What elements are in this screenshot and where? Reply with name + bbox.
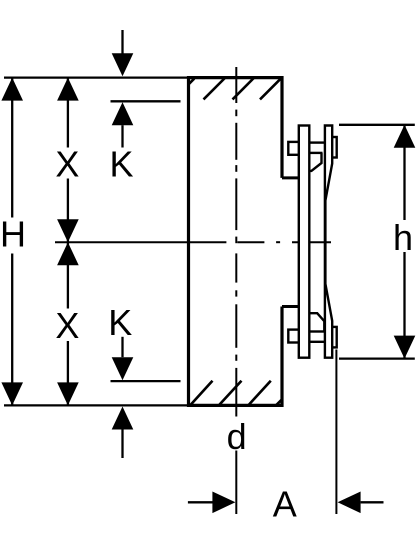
bolt head top	[288, 142, 300, 155]
arrow X mid up	[57, 242, 79, 265]
flange plate inner	[299, 126, 310, 358]
vertical centerline	[235, 67, 237, 417]
dimension H line	[11, 78, 13, 406]
dimension X line	[67, 78, 69, 406]
extension line top	[4, 76, 188, 78]
svg-text:K: K	[109, 144, 133, 185]
arrow h bottom	[394, 336, 416, 359]
h extension line top	[339, 124, 415, 126]
nut tab bottom	[332, 327, 337, 348]
clamp chamfer bottom	[309, 313, 324, 331]
arrow H bottom	[1, 382, 23, 405]
pipe collar ledge bottom	[282, 305, 299, 308]
svg-text:X: X	[55, 305, 79, 346]
K lower arrow above	[121, 337, 123, 357]
dimension h line	[403, 125, 405, 359]
clamp chamfer top	[309, 153, 321, 171]
K upper extension line	[111, 100, 181, 102]
arrow X bottom	[57, 382, 79, 405]
bolt shaft top	[309, 143, 325, 153]
nut tab top	[332, 137, 337, 158]
K lower extension line	[111, 380, 181, 382]
A arrow right	[338, 492, 361, 514]
svg-text:X: X	[55, 144, 79, 185]
svg-text:A: A	[273, 484, 297, 525]
bolt head bottom	[288, 330, 300, 343]
A arrow left	[188, 501, 214, 503]
hatching bottom	[190, 381, 282, 406]
svg-text:H: H	[0, 213, 26, 254]
svg-text:d: d	[227, 416, 247, 457]
hatching top	[189, 77, 282, 99]
K upper arrow below	[112, 102, 134, 125]
horizontal centerline	[55, 241, 331, 243]
A extension line right	[335, 350, 337, 515]
pipe collar ledge top	[282, 176, 299, 179]
arrow H top	[1, 78, 23, 101]
arrow X mid down	[57, 219, 79, 242]
extension line bottom	[4, 404, 188, 406]
pipe body outline	[188, 76, 282, 407]
svg-text:K: K	[108, 302, 132, 343]
svg-text:h: h	[393, 217, 413, 258]
h extension line bottom	[339, 357, 415, 359]
K lower arrow below	[112, 407, 134, 430]
K upper arrow above	[121, 30, 123, 55]
flange plate outer waisted	[325, 126, 332, 358]
arrow X top	[57, 78, 79, 101]
bolt shaft bottom	[309, 332, 325, 342]
arrow h top	[394, 125, 416, 148]
